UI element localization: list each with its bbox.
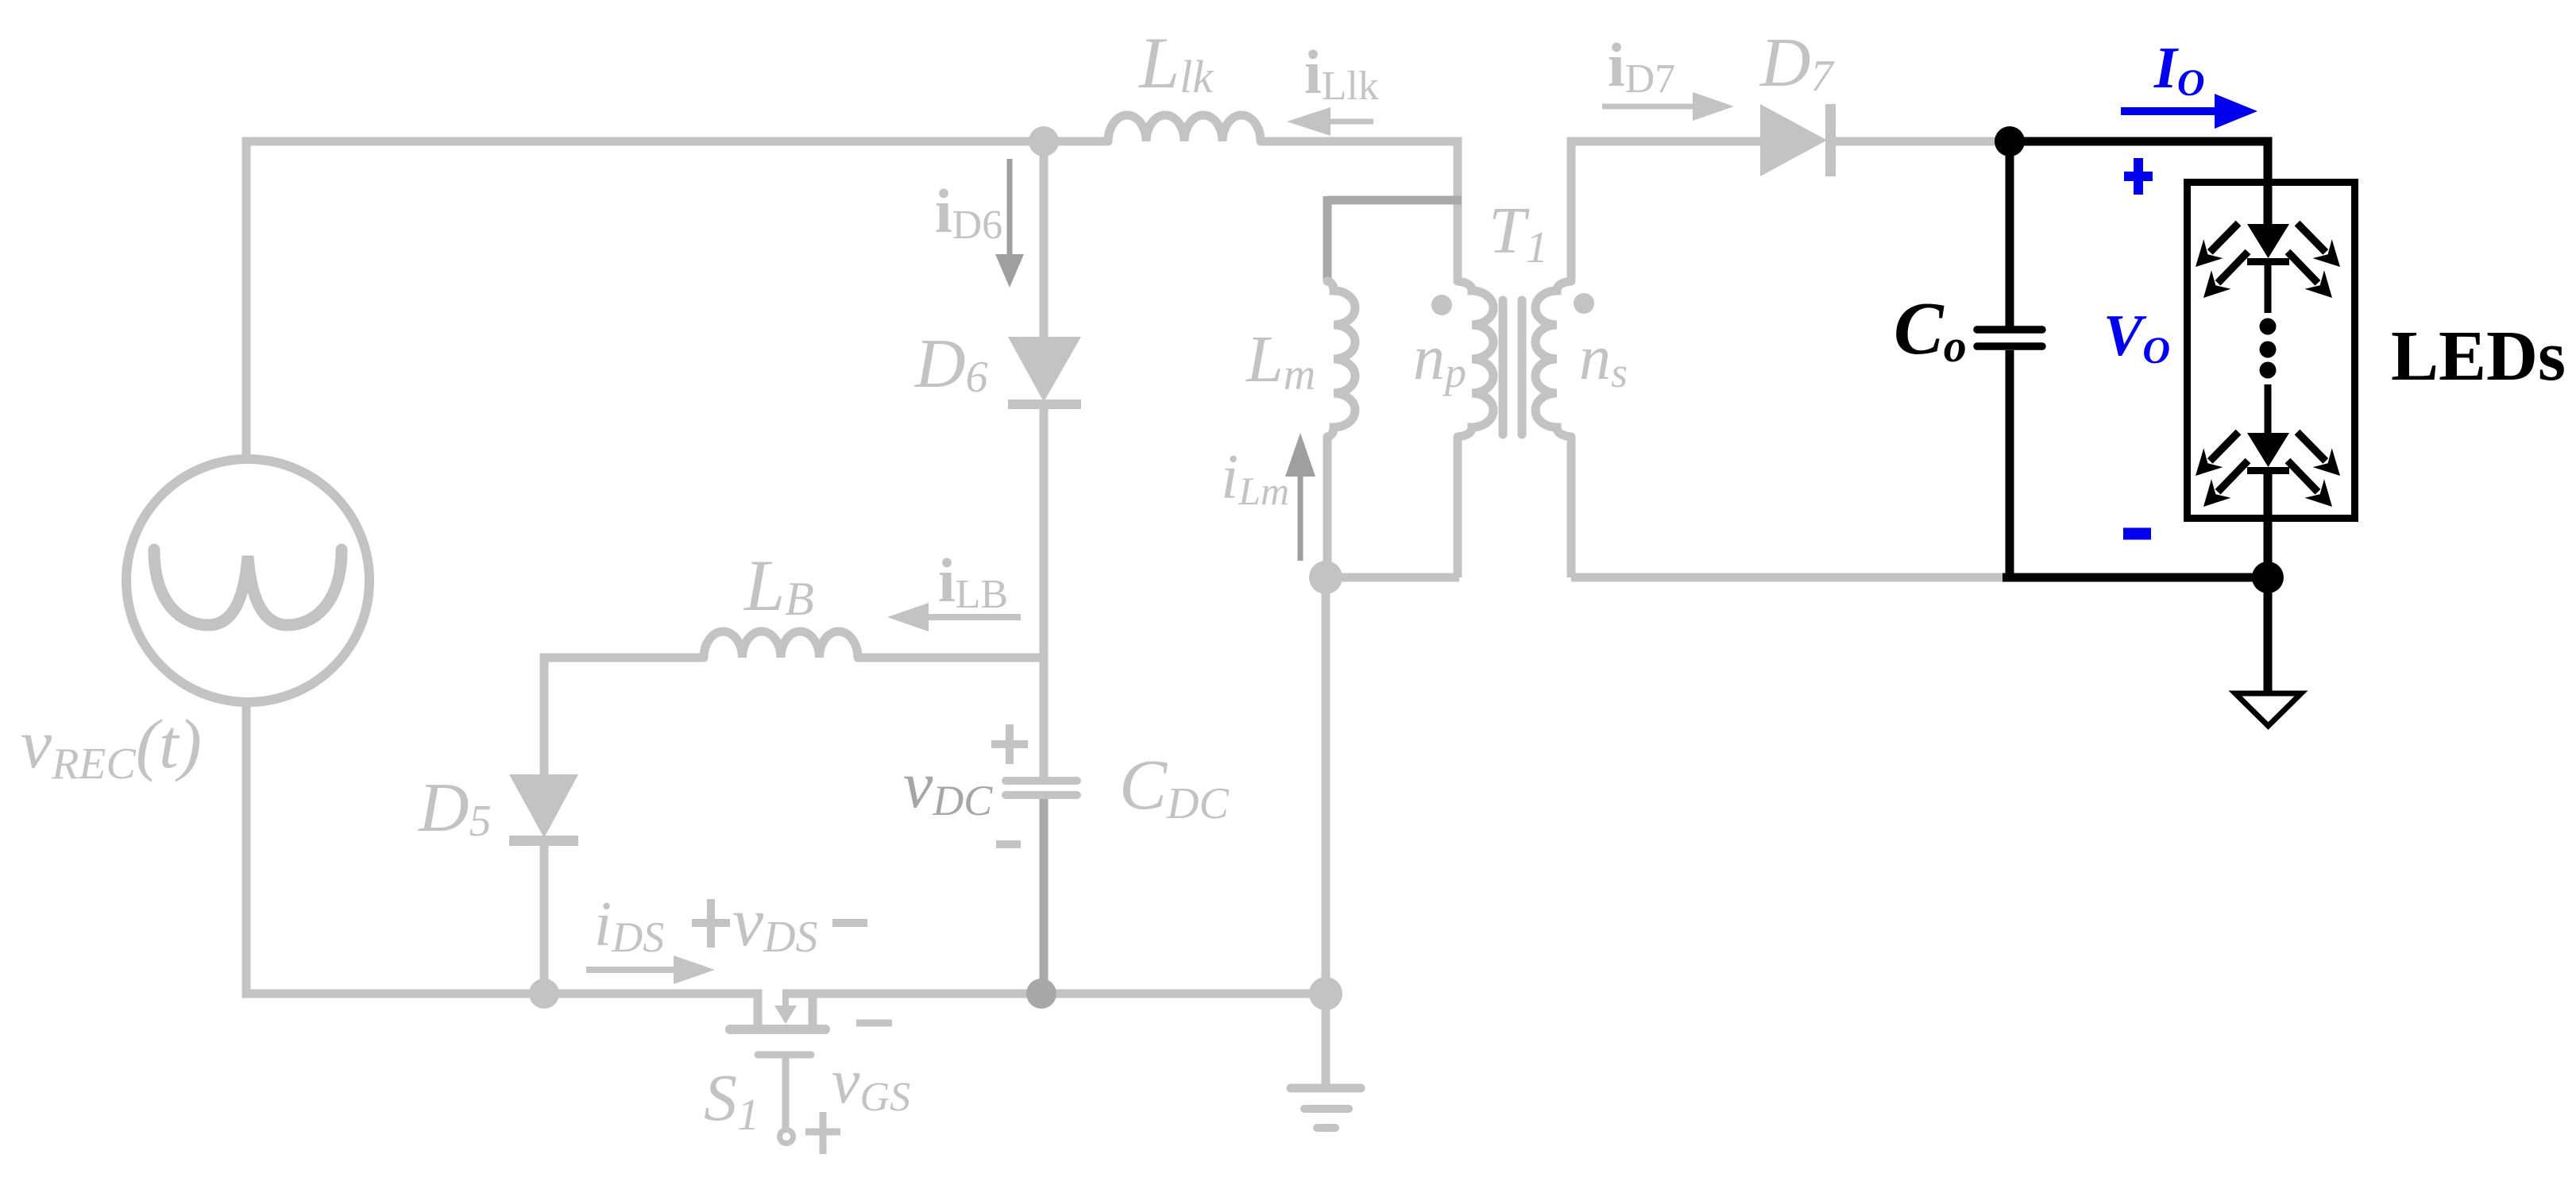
svg-text:LEDs: LEDs	[2391, 317, 2566, 396]
